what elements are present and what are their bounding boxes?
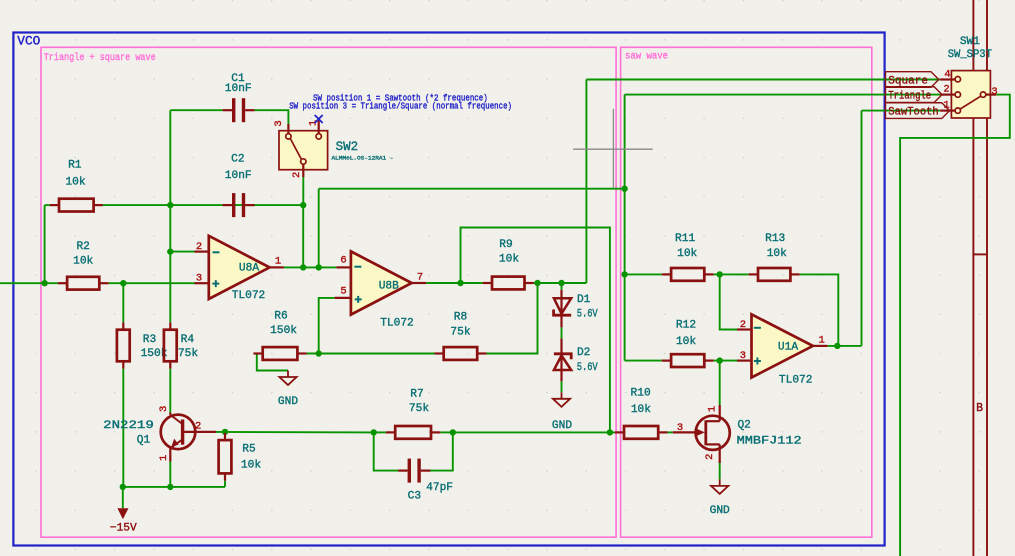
bus label B bbox=[976, 402, 983, 415]
wire R6 gnd elbow bbox=[257, 354, 288, 371]
no-connect X on SW2 pin1 bbox=[315, 115, 323, 123]
svg-text:U1A: U1A bbox=[778, 341, 798, 353]
svg-text:B: B bbox=[976, 402, 983, 415]
svg-text:U8B: U8B bbox=[379, 280, 399, 292]
svg-text:R6: R6 bbox=[274, 311, 287, 323]
svg-text:R11: R11 bbox=[675, 233, 695, 245]
power -15V bbox=[110, 508, 137, 534]
wire R13 right down bbox=[800, 274, 839, 346]
resistor R4 75k bbox=[164, 322, 198, 368]
junction R1/R2 left bbox=[41, 280, 47, 286]
svg-text:TL072: TL072 bbox=[232, 290, 266, 302]
junction C2/SW2 pin2 bbox=[300, 202, 306, 208]
wire R12 to U1A pin3 bbox=[714, 360, 737, 362]
svg-text:R4: R4 bbox=[181, 334, 195, 346]
svg-text:47pF: 47pF bbox=[426, 482, 453, 494]
wire U1A out bbox=[827, 345, 861, 347]
crosshair cursor bbox=[573, 109, 653, 188]
resistor R1 10k bbox=[50, 160, 103, 212]
svg-text:R12: R12 bbox=[676, 320, 696, 332]
wire D2 to gnd bbox=[561, 381, 563, 392]
transistor Q1 2N2219 bbox=[103, 406, 216, 462]
svg-text:R2: R2 bbox=[76, 241, 89, 253]
global label Square bbox=[886, 72, 939, 88]
op-amp U1A TL072 bbox=[737, 314, 827, 386]
wire summing vertical x=170 bbox=[169, 110, 171, 322]
wire R2 right to U8A pin3 bbox=[109, 282, 195, 284]
wire R7 right bbox=[440, 431, 453, 433]
wire Q2 source bbox=[719, 462, 721, 479]
diode D1 5.6V zener bbox=[554, 290, 598, 327]
svg-text:5.6V: 5.6V bbox=[577, 309, 598, 321]
svg-text:10k: 10k bbox=[767, 248, 787, 260]
svg-text:75k: 75k bbox=[409, 403, 429, 415]
svg-text:Triangle: Triangle bbox=[888, 91, 931, 103]
svg-text:2: 2 bbox=[943, 84, 949, 96]
svg-text:D2: D2 bbox=[577, 347, 590, 359]
wire C3 bypass bbox=[374, 432, 399, 470]
bus line B right bbox=[986, 0, 988, 556]
global label Triangle bbox=[886, 87, 943, 103]
resistor R13 10k bbox=[749, 233, 800, 281]
wire sawtooth net to label bbox=[862, 110, 941, 112]
resistor R10 10k bbox=[615, 388, 668, 439]
svg-text:4: 4 bbox=[944, 69, 950, 81]
junction feedback/R7 line bbox=[607, 429, 613, 435]
svg-text:SW position 3 = Triangle/Squar: SW position 3 = Triangle/Square (normal … bbox=[289, 102, 512, 112]
note SW position text bbox=[289, 93, 512, 111]
wire R10 to Q2 gate bbox=[665, 431, 673, 433]
junction R9/R8 up bbox=[534, 280, 540, 286]
resistor R9 10k bbox=[483, 239, 534, 290]
junction R1/C2/x170 bbox=[167, 202, 173, 208]
svg-text:2N2219: 2N2219 bbox=[103, 420, 154, 432]
sheet box VCO bbox=[13, 33, 884, 546]
wire R6-R8 line bbox=[307, 353, 436, 355]
bus line B left bbox=[972, 0, 974, 556]
wire Q1 emitter bbox=[169, 462, 171, 487]
svg-text:5.6V: 5.6V bbox=[577, 362, 598, 374]
wire U1A pin2 elbow bbox=[720, 274, 737, 329]
junction R7 right/C3 bbox=[450, 429, 456, 435]
transistor Q2 MMBFJ112 bbox=[673, 405, 802, 463]
svg-text:R5: R5 bbox=[242, 443, 255, 455]
switch SW1 SW_SP3T bbox=[940, 36, 997, 118]
svg-text:2: 2 bbox=[196, 241, 202, 253]
resistor R5 10k bbox=[219, 433, 262, 481]
wire R11-R13 link bbox=[714, 273, 749, 275]
svg-text:150k: 150k bbox=[270, 325, 297, 337]
wire out feedback down bbox=[461, 228, 610, 433]
wire Q2 drain bbox=[719, 361, 721, 405]
junction triangle tee bbox=[621, 186, 627, 192]
junction triangle/R11/R12 bbox=[621, 271, 627, 277]
global label SawTooth bbox=[886, 103, 950, 119]
wire triangle net vertical bbox=[624, 95, 626, 361]
junction base/R5 bbox=[222, 429, 228, 435]
svg-text:3: 3 bbox=[158, 406, 170, 412]
svg-text:10k: 10k bbox=[499, 254, 519, 266]
wire R3 top bbox=[122, 283, 124, 322]
svg-text:C3: C3 bbox=[408, 491, 421, 503]
junction rail/-15V bbox=[120, 484, 126, 490]
svg-text:10k: 10k bbox=[73, 256, 93, 268]
junction R9/D1 bbox=[558, 280, 564, 286]
svg-text:VCO: VCO bbox=[17, 34, 40, 49]
wire D1-D2 link bbox=[561, 327, 563, 338]
capacitor C3 47pF bbox=[398, 459, 453, 503]
svg-text:3: 3 bbox=[273, 120, 285, 126]
ground GND (Q2) bbox=[710, 479, 730, 517]
svg-text:6: 6 bbox=[340, 254, 346, 266]
wire SW2 pin2 down bbox=[302, 177, 304, 205]
svg-text:C2: C2 bbox=[231, 154, 244, 166]
junction R11/R13/pin2 bbox=[717, 271, 723, 277]
svg-text:1: 1 bbox=[819, 334, 825, 346]
svg-text:2: 2 bbox=[740, 319, 746, 331]
section box Triangle + square wave bbox=[41, 47, 616, 537]
wire Q1 base to R7 line bbox=[213, 431, 374, 434]
svg-text:SawTooth: SawTooth bbox=[888, 107, 938, 119]
svg-text:−15V: −15V bbox=[110, 523, 137, 535]
wire -15V stem bbox=[122, 487, 124, 508]
section box saw wave bbox=[621, 47, 872, 537]
resistor R8 75k bbox=[434, 312, 486, 360]
wire R9 right to square tap bbox=[534, 282, 587, 284]
svg-text:Q2: Q2 bbox=[737, 419, 750, 431]
svg-text:1: 1 bbox=[275, 256, 281, 268]
wire C2 line to SW2 junction bbox=[170, 204, 303, 206]
svg-text:10k: 10k bbox=[65, 177, 85, 189]
resistor R12 10k bbox=[662, 320, 714, 367]
wire triangle net to label bbox=[625, 94, 941, 96]
svg-text:R9: R9 bbox=[499, 239, 512, 251]
svg-text:SW1: SW1 bbox=[960, 36, 980, 48]
svg-text:75k: 75k bbox=[178, 348, 198, 360]
wire U8B pin5 elbow bbox=[319, 298, 335, 354]
svg-text:TL072: TL072 bbox=[380, 318, 414, 330]
svg-text:Q1: Q1 bbox=[137, 434, 151, 446]
wire R3 bottom to rail bbox=[122, 369, 124, 487]
svg-text:75k: 75k bbox=[450, 326, 470, 338]
svg-text:2: 2 bbox=[291, 172, 303, 178]
junction R7 left/C3 bbox=[371, 429, 377, 435]
resistor R2 10k bbox=[58, 241, 109, 290]
svg-text:MMBFJ112: MMBFJ112 bbox=[737, 436, 802, 448]
svg-text:1: 1 bbox=[706, 406, 718, 412]
svg-text:saw wave: saw wave bbox=[625, 51, 668, 63]
svg-text:GND: GND bbox=[552, 420, 572, 432]
svg-text:1: 1 bbox=[158, 455, 170, 461]
wire R12 left bbox=[625, 360, 662, 362]
svg-text:3: 3 bbox=[991, 86, 997, 98]
svg-text:Triangle + square wave: Triangle + square wave bbox=[44, 52, 156, 64]
wire input to R2 bbox=[0, 282, 58, 284]
junction U8B out/feedback bbox=[457, 280, 463, 286]
wire C3 right up bbox=[430, 432, 453, 470]
svg-text:R10: R10 bbox=[631, 388, 651, 400]
svg-text:2: 2 bbox=[704, 454, 716, 460]
junction U1A out/R13 bbox=[834, 343, 840, 349]
svg-text:Square: Square bbox=[888, 75, 928, 87]
svg-text:5: 5 bbox=[340, 285, 346, 297]
wire R11 left bbox=[625, 273, 662, 275]
resistor R11 10k bbox=[662, 233, 714, 281]
resistor R7 75k bbox=[386, 388, 440, 438]
svg-text:7: 7 bbox=[417, 271, 423, 283]
junction R12/pin3/Q2 bbox=[717, 357, 723, 363]
svg-text:U8A: U8A bbox=[239, 263, 259, 275]
wire square net up bbox=[585, 80, 587, 284]
wire sawtooth net up bbox=[861, 111, 863, 346]
bus connector segment bbox=[972, 253, 988, 255]
wire R1 right to C2 line bbox=[103, 204, 170, 206]
svg-text:GND: GND bbox=[278, 396, 298, 408]
junction rail/Q1 emitter bbox=[167, 484, 173, 490]
wire C1 right to SW2 pin3 bbox=[255, 110, 289, 124]
svg-text:R7: R7 bbox=[410, 388, 423, 400]
junction pin2 tap bbox=[167, 248, 173, 254]
op-amp U8A TL072 bbox=[195, 236, 284, 302]
wire bottom rail bbox=[123, 486, 225, 488]
resistor R3 150k bbox=[117, 322, 168, 368]
op-amp U8B TL072 bbox=[335, 251, 427, 329]
svg-text:3: 3 bbox=[740, 350, 746, 362]
ground GND (R6) bbox=[278, 371, 298, 409]
wire D1 top bbox=[561, 283, 563, 290]
wire R1 left bbox=[45, 204, 50, 206]
junction U8A out B bbox=[316, 264, 322, 270]
svg-text:10k: 10k bbox=[676, 336, 696, 348]
wire triangle net horizontal bbox=[319, 188, 625, 190]
wire SW2 node down to U8A out bbox=[302, 205, 304, 267]
capacitor C1 10nF bbox=[223, 73, 255, 122]
svg-text:SW2: SW2 bbox=[336, 140, 359, 154]
svg-text:GND: GND bbox=[710, 505, 730, 517]
svg-text:TL072: TL072 bbox=[779, 374, 813, 386]
ground GND (D2) bbox=[552, 392, 572, 432]
wire C1 left bbox=[170, 109, 222, 111]
svg-text:ALMMeL.OS-12RA1 -: ALMMeL.OS-12RA1 - bbox=[332, 155, 394, 162]
wire SW1 pin3 out bbox=[900, 95, 1010, 556]
svg-text:SW_SP3T: SW_SP3T bbox=[948, 49, 993, 61]
wire U8B out bbox=[426, 282, 483, 284]
wire R5 bottom bbox=[224, 481, 226, 487]
svg-text:10nF: 10nF bbox=[225, 170, 252, 182]
svg-text:3: 3 bbox=[677, 422, 683, 434]
svg-text:10k: 10k bbox=[677, 248, 697, 260]
svg-text:R3: R3 bbox=[143, 334, 156, 346]
wire triangle-tap vertical bbox=[318, 189, 320, 268]
svg-text:3: 3 bbox=[196, 273, 202, 285]
capacitor C2 10nF bbox=[223, 154, 255, 218]
svg-text:10nF: 10nF bbox=[225, 83, 252, 95]
wire R1-left drop bbox=[44, 205, 46, 283]
wire square net to label bbox=[586, 79, 940, 81]
diode D2 5.6V zener bbox=[554, 339, 598, 382]
wire U8A pin2 bbox=[170, 251, 194, 253]
wire R7 left bbox=[374, 431, 386, 433]
svg-text:10k: 10k bbox=[241, 460, 261, 472]
junction R2/R3/pin3 bbox=[120, 280, 126, 286]
wire U8A out to U8B pin6 bbox=[284, 266, 337, 268]
junction U8A out A bbox=[300, 264, 306, 270]
svg-text:2: 2 bbox=[195, 421, 201, 433]
junction pin5/R6/R8 bbox=[316, 350, 322, 356]
wire R4 bottom to Q1 collector bbox=[169, 369, 171, 414]
svg-text:D1: D1 bbox=[577, 294, 591, 306]
svg-text:R1: R1 bbox=[68, 160, 82, 172]
resistor R6 150k bbox=[253, 311, 306, 360]
switch SW2 bbox=[273, 120, 394, 178]
wire R5 top bbox=[224, 431, 226, 434]
wire R7 line to R10 bbox=[453, 431, 619, 433]
wire R8 right up to out bbox=[486, 283, 538, 354]
svg-text:R8: R8 bbox=[454, 312, 467, 324]
svg-text:10k: 10k bbox=[631, 404, 651, 416]
svg-text:R13: R13 bbox=[765, 233, 785, 245]
